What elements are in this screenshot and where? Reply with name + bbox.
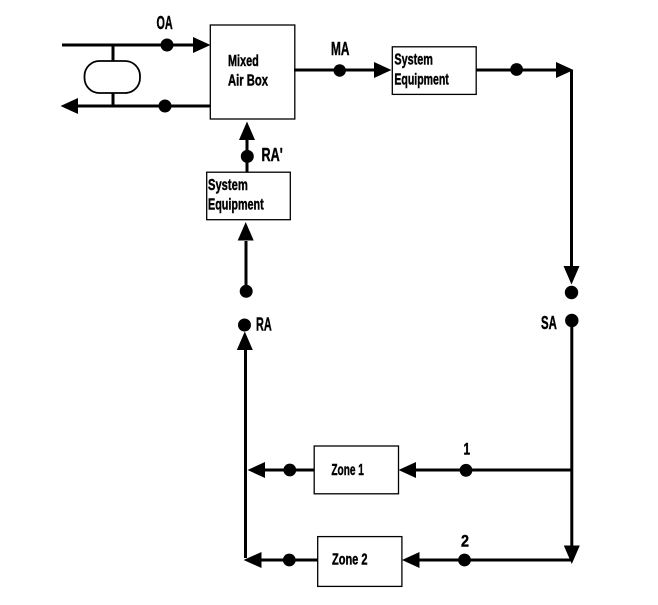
arrowhead into System Equipment top (right) [374,62,392,78]
wire RA riser middle segment [245,241,248,291]
wire Zone1 out to RA riser [264,469,314,472]
svg-text:1: 1 [464,441,471,459]
svg-text:Zone 1: Zone 1 [331,462,364,479]
svg-text:RA: RA [256,314,272,334]
svg-text:2: 2 [461,533,469,551]
arrowhead up below RA dot [237,332,253,351]
arrowhead into Mixed Air Box (right) [193,37,211,53]
arrowhead down at bottom-right corner [564,546,580,565]
svg-text:Zone 2: Zone 2 [332,552,368,569]
wire right vertical upper (supply duct down) [570,70,573,267]
node dot on exhaust line [159,100,172,113]
wire Zone2 out to RA riser [260,559,318,562]
arrowhead into Zone 2 (left) [402,552,420,568]
arrowhead into Zone 1 (left) [399,462,417,478]
node dot Zone1 out [283,464,296,477]
svg-text:OA: OA [157,13,173,33]
node dot RA' [241,150,254,163]
arrowhead down above break [564,266,580,285]
wire RA riser (left vertical) [244,349,247,558]
arrowhead up into System Equipment bottom box [238,222,254,241]
wire MA line [294,69,375,72]
arrowhead at top-right corner (right) [556,62,574,78]
System Equipment box (bottom) [207,172,291,220]
node dot above break [565,286,578,299]
wire exhaust line [77,105,211,108]
wire right vertical lower [570,325,573,547]
arrowhead exhaust (left) [61,98,79,114]
wire RA' segment [246,140,249,172]
wire damper tick [112,45,115,106]
wire OA intake line [62,44,196,47]
wire Zone1 branch right [415,469,572,472]
arrowhead into RA riser from Zone2 (left) [244,552,262,568]
node dot RA [238,319,251,332]
svg-text:Equipment: Equipment [394,71,449,88]
node dot on Zone2 branch [458,554,471,567]
svg-text:Air Box: Air Box [228,72,268,89]
node dot before corner [510,63,523,76]
node dot on OA line [161,39,174,52]
svg-text:MA: MA [331,39,349,59]
wire SE to corner [476,69,557,72]
Mixed Air Box [210,25,294,119]
wire Zone2 branch right [419,559,572,562]
node dot SA [565,314,578,327]
node dot on MA line [334,64,346,76]
node dot above RA break [240,285,253,298]
svg-text:RA': RA' [262,145,283,165]
svg-text:System: System [208,177,248,194]
node dot on Zone1 branch [460,464,473,477]
damper capsule [85,61,141,93]
arrowhead up into Mixed Air Box bottom [239,122,255,141]
arrowhead into RA riser from Zone1 (left) [248,462,266,478]
Zone 2 box [318,537,402,587]
System Equipment box (top) [392,47,476,95]
node dot Zone2 out [283,554,296,567]
svg-text:Equipment: Equipment [208,196,264,213]
svg-text:System: System [394,51,433,68]
Zone 1 box [314,446,398,494]
svg-text:SA: SA [541,313,557,333]
svg-text:Mixed: Mixed [228,53,259,70]
